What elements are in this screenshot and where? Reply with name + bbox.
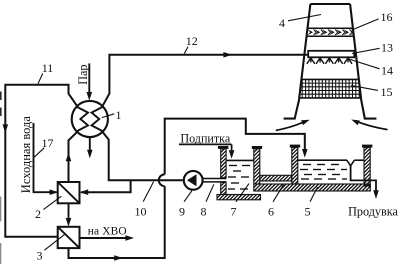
label 1	[102, 108, 122, 122]
pipe HX3-to-tank5	[69, 119, 308, 261]
label 6	[268, 185, 284, 219]
label 16	[354, 10, 393, 29]
label 7	[231, 184, 250, 219]
svg-text:6: 6	[268, 205, 274, 219]
water distributor 13	[308, 51, 354, 58]
svg-text:4: 4	[279, 16, 285, 30]
pipe branch to HX2 right side	[80, 180, 131, 195]
label Продувка	[348, 205, 398, 219]
spray nozzles 14	[307, 58, 352, 64]
svg-text:1: 1	[116, 108, 122, 122]
svg-text:13: 13	[381, 40, 393, 54]
heat exchanger 3	[58, 227, 80, 248]
svg-text:Исходная вода: Исходная вода	[19, 116, 33, 194]
scan edge marks	[0, 92, 2, 264]
label 17	[34, 136, 53, 157]
pipe 10 circulating line	[102, 132, 183, 181]
air inlet arrow right	[351, 120, 387, 130]
svg-text:5: 5	[305, 205, 311, 219]
pump 9	[184, 171, 203, 190]
condensate drain arrow	[87, 137, 93, 158]
svg-text:Продувка: Продувка	[348, 205, 398, 219]
foundation slab	[254, 184, 370, 191]
steam heater 1	[72, 101, 108, 137]
pipe HX2-to-HX3	[66, 203, 72, 226]
label 12	[184, 34, 198, 54]
label 3	[37, 235, 65, 263]
svg-text:7: 7	[231, 205, 237, 219]
raw water inlet pipe 17	[34, 123, 59, 195]
label 2	[35, 196, 61, 221]
label 4	[279, 15, 321, 31]
air inlet arrow left	[276, 120, 310, 131]
label 13	[352, 40, 393, 54]
svg-text:10: 10	[135, 205, 147, 219]
svg-text:9: 9	[179, 205, 185, 219]
svg-text:2: 2	[35, 207, 41, 221]
svg-text:3: 3	[37, 249, 43, 263]
overflow channel 6	[260, 175, 292, 181]
pipe HX2-to-heater	[66, 132, 78, 182]
overflow funnel and blowdown line	[347, 160, 379, 199]
pipe 12 heater-to-tower	[102, 52, 308, 106]
pipe 11 heater-to-HX3	[3, 85, 78, 237]
label Пар	[76, 64, 90, 84]
label 9	[179, 191, 192, 219]
cooling tower 4 shell	[284, 4, 377, 119]
label 10	[135, 182, 154, 219]
svg-text:8: 8	[201, 205, 207, 219]
make-up tank 7	[217, 146, 262, 200]
label 11	[38, 61, 53, 84]
label 15	[351, 85, 393, 99]
label 8	[201, 184, 214, 218]
label Исходная вода	[19, 116, 33, 194]
label на ХВО	[88, 225, 127, 237]
heat exchanger 2	[58, 182, 80, 203]
basin tank 5	[290, 145, 373, 186]
steam inlet arrow	[87, 63, 93, 100]
tower fill 15	[298, 79, 362, 98]
label 14	[348, 59, 393, 78]
svg-text:14: 14	[381, 64, 393, 78]
pipe to chemical treatment	[80, 235, 135, 241]
svg-text:Пар: Пар	[76, 64, 90, 84]
svg-text:16: 16	[381, 10, 393, 24]
label 5	[305, 187, 318, 219]
suction pipe 8	[203, 179, 227, 182]
svg-text:на ХВО: на ХВО	[88, 225, 127, 237]
svg-text:12: 12	[186, 34, 198, 48]
drift eliminator 16	[307, 28, 360, 36]
svg-text:Подпитка: Подпитка	[180, 131, 231, 145]
svg-text:15: 15	[381, 85, 393, 99]
svg-text:11: 11	[42, 61, 54, 75]
make-up line Подпитка	[179, 131, 234, 159]
